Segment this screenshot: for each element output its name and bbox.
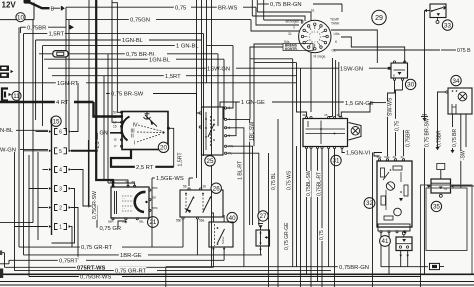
wire center bus 89	[88, 0, 90, 207]
svg-text:1,5RT: 1,5RT	[49, 32, 65, 38]
flasher relay U32 box	[377, 161, 412, 227]
svg-text:BR-WS: BR-WS	[218, 5, 237, 11]
svg-text:1SW-GN: 1SW-GN	[207, 66, 230, 72]
wire BR-WS into connector	[256, 7, 299, 25]
svg-text:15: 15	[113, 125, 117, 129]
wire center bus 117	[112, 3, 122, 113]
switch 26 inner contacts	[185, 194, 187, 213]
svg-text:31: 31	[122, 220, 126, 224]
wire connector feeds into 31 top	[332, 58, 334, 117]
svg-text:40: 40	[229, 215, 236, 222]
wire 075 B to right edge	[334, 49, 441, 51]
relay 40 bottom pins	[212, 248, 214, 250]
svg-text:15: 15	[324, 113, 328, 117]
flasher 32 inner circuit	[381, 168, 385, 177]
buzzer 41 inner	[396, 243, 412, 245]
wire relay30 right pin down	[402, 80, 404, 90]
wire 1 GN-GE to instrument	[220, 102, 240, 107]
wire 290 drop	[292, 59, 294, 267]
ignition switch left pins	[121, 111, 123, 113]
wire left stub y263	[0, 263, 9, 265]
svg-text:0,75BR-GN: 0,75BR-GN	[339, 265, 369, 271]
switch 31 top pins	[305, 117, 307, 119]
svg-text:B: B	[393, 74, 395, 78]
wire 1,5GE-WS	[152, 177, 155, 179]
svg-text:8: 8	[229, 106, 231, 110]
wire bus 233 drop	[227, 46, 233, 108]
wire fuse 4 output	[71, 170, 89, 207]
wire 31 bottom drops	[306, 149, 308, 275]
svg-text:2: 2	[59, 206, 62, 212]
wiper switch right pins	[225, 107, 227, 109]
wire fuse feeder 66	[65, 7, 67, 131]
svg-text:58b: 58b	[153, 186, 158, 190]
svg-text:5: 5	[59, 149, 62, 155]
wire connector top feeds	[251, 0, 253, 16]
svg-text:1,5GE-WS: 1,5GE-WS	[156, 176, 184, 182]
fuse 4	[49, 168, 51, 171]
svg-text:0,75 BR-GN: 0,75 BR-GN	[270, 2, 302, 8]
switch U33 box	[430, 4, 446, 18]
wire bottom drops	[211, 266, 213, 268]
wire 075RT-WS bus bold	[5, 266, 77, 268]
svg-text:IV: IV	[133, 123, 138, 129]
wire connector bottom drop M	[310, 53, 312, 112]
node 10 terminal circle	[16, 13, 25, 22]
svg-text:0,75BL-SW: 0,75BL-SW	[306, 170, 312, 196]
svg-text:I: I	[134, 141, 135, 147]
svg-text:0,75 BR: 0,75 BR	[452, 129, 458, 147]
switch 31 inner	[306, 128, 346, 130]
wire 0,75 BR-SW	[106, 93, 110, 95]
label 1,5RT vertical	[177, 152, 183, 168]
wire vertical bus i	[35, 40, 37, 120]
wire 0,75GR-RT bus	[19, 246, 80, 248]
wire 34 drop a	[452, 114, 454, 150]
wire 1,5RT lower	[52, 75, 164, 77]
svg-text:Schw: Schw	[221, 236, 225, 244]
relay 35 inner	[431, 182, 451, 184]
svg-text:35: 35	[433, 204, 440, 211]
wire 0,75GN	[66, 19, 129, 21]
wire connector left lower feeds	[250, 47, 293, 59]
wire horizontal from left edge to battery drop	[0, 19, 34, 21]
relay 30 pins	[389, 67, 391, 69]
svg-text:30: 30	[407, 82, 414, 89]
wire 0,75BR stub with arrow	[21, 26, 27, 28]
wire left stub y222	[0, 222, 33, 224]
wire 1,5GN-VI	[342, 149, 345, 153]
svg-text:58: 58	[153, 195, 157, 199]
wire wiper pin5 up	[227, 102, 236, 136]
wire center bus thick 96 to lamp switch	[96, 0, 113, 187]
wire relay 35 top	[440, 170, 442, 179]
svg-text:0,75 WS: 0,75 WS	[287, 170, 293, 190]
wire bus 218 drop	[217, 54, 219, 126]
wire battery to node 10	[33, 3, 35, 20]
svg-text:21: 21	[149, 219, 156, 226]
ignition switch wiper dashes	[138, 125, 163, 132]
svg-text:1: 1	[59, 225, 62, 231]
wire 34 drop c	[465, 114, 467, 147]
label 0,75 vertical small	[319, 228, 325, 241]
svg-text:OL: OL	[332, 49, 337, 53]
svg-text:1,5GN-VI: 1,5GN-VI	[346, 151, 371, 157]
fuse 6	[49, 130, 51, 133]
switch 33 bottom contact circle	[437, 18, 439, 21]
node 26 circle	[211, 183, 221, 193]
wire vertical bus d	[18, 27, 20, 247]
svg-text:1,5RT: 1,5RT	[178, 152, 184, 167]
wire vertical bus b	[8, 260, 10, 264]
wire 2,5 RT thick	[111, 150, 174, 167]
label 0,75 BR vertical	[452, 127, 458, 148]
wire 0,75RT bus	[9, 259, 58, 261]
turn signal switch U31 box	[303, 119, 348, 147]
fuse box main bus	[51, 118, 53, 236]
wire 0,75GR-WS bus	[29, 276, 79, 278]
wire vertical bus c	[14, 152, 16, 271]
wiper switch U25 box	[202, 107, 224, 155]
svg-text:W-GN: W-GN	[0, 147, 16, 153]
label 1BL-SW vertical	[249, 122, 255, 142]
switch 33 contacts	[432, 8, 444, 12]
wire flasher bottom drop b	[388, 233, 390, 274]
svg-text:26: 26	[213, 185, 220, 192]
flasher 32 bottom pin row	[378, 224, 410, 231]
label SW vertical	[461, 150, 467, 161]
relay 40 top stubs	[212, 213, 214, 222]
svg-text:0,75GR-SW: 0,75GR-SW	[92, 191, 98, 219]
wire from 33 down right side 0,75 BR-SW	[424, 11, 426, 275]
node 40 circle	[227, 212, 237, 222]
fog lamp switch U26 box	[180, 190, 223, 217]
svg-text:56a: 56a	[199, 219, 205, 223]
fuse 5	[49, 149, 51, 152]
svg-text:58R: 58R	[108, 220, 114, 224]
wire center bus 201	[201, 0, 203, 190]
light switch rotary dimmer arc thick	[135, 192, 146, 212]
node 33 circle	[442, 20, 452, 30]
ignition switch position arc	[122, 117, 130, 141]
wire 1GN-BL third	[44, 58, 148, 60]
light switch inner dashed rows	[122, 195, 133, 197]
switch 26 top pins	[188, 188, 190, 190]
svg-text:0,75 BR-SW: 0,75 BR-SW	[111, 92, 144, 98]
wire bottom bus 3	[0, 284, 474, 286]
fuse 1	[49, 225, 51, 228]
lamp 34 left pin	[446, 91, 448, 93]
scan smudge left edge	[0, 269, 3, 279]
relay 35 side arrows	[428, 184, 431, 187]
svg-text:1 BL-RT: 1 BL-RT	[238, 160, 244, 180]
instrument cluster connector ring	[299, 20, 331, 52]
svg-text:U6s: U6s	[334, 32, 340, 36]
wire 0,75 GR-RT bus 2	[15, 270, 115, 272]
wire drop to pin 30 of 21	[103, 76, 105, 180]
flasher 32 top pins	[378, 159, 380, 161]
wire bottom thick bus	[0, 273, 474, 275]
wire 88 vertical	[87, 140, 89, 206]
wire fuse 1 output	[71, 227, 72, 248]
svg-text:0,75BR: 0,75BR	[406, 129, 412, 147]
svg-text:0,75RT: 0,75RT	[59, 258, 78, 264]
svg-text:2,5 RT: 2,5 RT	[136, 165, 154, 171]
svg-text:1 GN-GE: 1 GN-GE	[241, 100, 265, 106]
wire bus 203 drop	[203, 34, 205, 156]
wire wiper FL down	[227, 153, 259, 225]
wire 1BR-GE bus	[24, 254, 120, 256]
svg-text:0,75: 0,75	[175, 5, 186, 11]
svg-text:4: 4	[59, 168, 62, 174]
node 32 circle	[364, 198, 375, 209]
svg-text:- -: - -	[122, 206, 125, 210]
ignition switch right contact	[162, 131, 164, 133]
wire vertical bus j	[42, 46, 44, 126]
node 35 circle	[431, 201, 441, 211]
wire connector K jog to relay 30	[341, 37, 405, 63]
label 0,75BR vertical 437	[437, 130, 443, 148]
wire relay30 KBL down SW-WS	[388, 80, 395, 156]
svg-text:29: 29	[375, 15, 383, 22]
svg-text:075 B: 075 B	[457, 48, 471, 54]
switch 31 lamp holder	[349, 123, 362, 141]
svg-text:58b: 58b	[153, 206, 158, 210]
relay 30 inner	[394, 69, 406, 71]
svg-text:0,75 GR-RT: 0,75 GR-RT	[81, 245, 113, 251]
wire 1SW-GN	[48, 67, 206, 69]
wire 0,75 GR to light switch	[88, 206, 97, 228]
node 29 circle	[372, 10, 386, 24]
label 0,75 BR-SW vertical	[424, 118, 430, 148]
light switch bottom pins	[112, 218, 114, 220]
node 31 circle	[331, 155, 341, 165]
wire 0,75GN into connector	[251, 20, 299, 31]
ground connector arrow right side	[423, 118, 427, 121]
svg-text:1BL-SW: 1BL-SW	[250, 122, 256, 141]
wire bottom bus 2	[0, 281, 474, 283]
svg-text:10: 10	[17, 14, 24, 21]
svg-text:KONTR.: KONTR.	[285, 47, 298, 51]
svg-text:49: 49	[393, 155, 397, 159]
ignition switch key arrow	[150, 120, 153, 125]
svg-text:B: B	[51, 6, 55, 12]
svg-text:1 GN-BL: 1 GN-BL	[176, 44, 199, 50]
svg-text:KBL: KBL	[385, 155, 391, 159]
wire 56b drop	[182, 219, 184, 247]
node 27 circle	[258, 211, 268, 221]
buzzer U41 box	[396, 237, 412, 251]
wire wiper pin7 to 1BL-SW	[227, 119, 250, 225]
svg-text:1GN-BL: 1GN-BL	[149, 57, 171, 63]
node 30 circle	[405, 79, 415, 89]
svg-text:58L: 58L	[139, 220, 144, 224]
svg-text:-SW: -SW	[461, 150, 467, 160]
svg-text:0,75 BL: 0,75 BL	[271, 173, 277, 190]
svg-text:31: 31	[333, 158, 340, 165]
wire 370 vertical	[372, 153, 374, 287]
relay U40 box	[209, 222, 233, 247]
sensor 27 inner	[260, 231, 262, 245]
wire 56a drop	[196, 219, 198, 255]
label 2,5 vertical	[95, 139, 101, 149]
svg-text:49a: 49a	[377, 155, 382, 159]
ignition switch U20 box	[122, 112, 168, 150]
wire flasher bottom drop a	[380, 233, 382, 267]
wire bus 224 drop	[223, 59, 225, 119]
svg-text:56: 56	[183, 185, 187, 189]
label 0,75 BL vertical	[271, 170, 277, 191]
ground connector symbol	[430, 263, 440, 269]
switch 26 bottom pins	[182, 217, 184, 219]
wire 0,75 BR-BL	[39, 53, 125, 55]
wire 4 RT thick	[0, 101, 55, 103]
switch 33 left arrow	[424, 9, 427, 12]
connector 11 bracket	[2, 89, 8, 101]
node 41 circle	[380, 236, 391, 247]
svg-text:II: II	[131, 134, 134, 140]
wire ignition switch output 1,5RT	[168, 128, 173, 167]
svg-text:61: 61	[311, 9, 315, 13]
svg-text:0,75BL-RT: 0,75BL-RT	[316, 172, 322, 196]
wire fuse input stubs	[15, 226, 49, 228]
svg-text:1GN-RT: 1GN-RT	[57, 81, 79, 87]
wire center bus 206	[206, 0, 208, 83]
wire vertical bus h	[37, 152, 39, 240]
wire 0,75 BR-GN header	[258, 3, 269, 5]
svg-text:3: 3	[293, 26, 295, 30]
wire center bus 196	[196, 0, 198, 178]
wire vertical bus a	[4, 253, 6, 268]
wire fuse feeder 69	[68, 20, 70, 151]
svg-text:30: 30	[113, 115, 117, 119]
wiper switch inner contacts	[205, 112, 207, 150]
svg-text:SW-WS: SW-WS	[388, 97, 394, 116]
svg-text:0,75 BR-SW: 0,75 BR-SW	[424, 118, 430, 147]
svg-text:0,75: 0,75	[319, 230, 325, 240]
svg-text:N-BL: N-BL	[0, 128, 14, 134]
connector pins	[314, 23, 317, 26]
wire 1GN-BL first	[36, 39, 121, 41]
label 0,75BL-RT vertical	[316, 171, 322, 197]
label 0,75BR vertical right of flasher	[405, 129, 411, 148]
label SW-WS vertical	[387, 97, 393, 117]
svg-text:P: P	[114, 145, 116, 149]
fuse 3	[49, 187, 51, 190]
svg-text:4 RT: 4 RT	[56, 100, 69, 106]
battery terminal blob	[24, 0, 31, 4]
wire 49 feed	[396, 90, 403, 156]
node 11 circle	[12, 91, 21, 100]
svg-text:3: 3	[59, 187, 62, 193]
wire sensor 27 bottom	[260, 246, 262, 255]
svg-text:15: 15	[53, 118, 60, 125]
svg-text:TANK: TANK	[331, 22, 340, 26]
svg-text:1,5RT: 1,5RT	[165, 74, 181, 80]
wire 31 feed of flasher	[403, 130, 405, 156]
sensor 27 top plug	[260, 226, 262, 231]
svg-text:M siege.: M siege.	[314, 55, 327, 59]
connector plug left edge	[0, 66, 9, 71]
svg-text:41: 41	[382, 238, 389, 245]
label GN at ignition feed	[98, 129, 106, 135]
node 25 circle	[205, 156, 215, 166]
wire wiper FR down	[227, 146, 253, 225]
wire battery B+ thick lead	[28, 2, 50, 9]
node 21 circle	[148, 217, 159, 228]
wire center bus 112	[112, 0, 122, 122]
relay 35 bottom circle	[439, 194, 442, 197]
wire 0,75 / BR-WS	[66, 6, 174, 8]
node 20 circle	[158, 142, 168, 152]
wire 1GN-RT	[0, 82, 56, 84]
wire drop to pin 56 of 21	[107, 54, 109, 183]
relay 30 bottom pins	[393, 78, 395, 80]
relay U30 box	[391, 63, 408, 78]
svg-text:1BR-GE: 1BR-GE	[120, 253, 142, 259]
svg-text:0,75: 0,75	[395, 121, 401, 131]
svg-text:33: 33	[444, 22, 451, 29]
svg-text:25: 25	[207, 158, 214, 165]
wire vertical bus f	[28, 155, 30, 277]
light switch U21 box	[111, 187, 149, 218]
light switch top pins	[112, 185, 114, 187]
wiper switch left pins	[199, 112, 201, 114]
wire 296 drop	[297, 63, 307, 117]
label 0,75 GR-GE vertical	[284, 222, 290, 251]
svg-text:1,5 GN-GE: 1,5 GN-GE	[345, 101, 374, 107]
lamp 34 symbol	[458, 92, 467, 101]
wire 1 GN-BL second	[43, 45, 176, 47]
wire 0,75BR-GN bus	[166, 266, 338, 268]
relay U35 box	[431, 179, 451, 193]
wire center bus 211	[211, 0, 213, 267]
wire 296 lower drop	[296, 146, 298, 267]
svg-text:1SW-GN: 1SW-GN	[340, 66, 363, 72]
buzzer 41 top circle	[402, 232, 405, 235]
svg-text:0,75GN: 0,75GN	[130, 18, 150, 24]
wire 34 drop b	[460, 114, 462, 188]
svg-text:56b: 56b	[176, 219, 182, 223]
wire 1,5RT upper	[24, 33, 49, 35]
svg-text:1GN-BL: 1GN-BL	[122, 38, 144, 44]
switch 31 bottom pins	[305, 146, 307, 148]
wire wiper pin6 to 1BL-RT	[227, 128, 244, 267]
label 0,75 vertical	[394, 119, 400, 132]
svg-text:6: 6	[59, 130, 62, 136]
svg-text:0,75GR-WS: 0,75GR-WS	[80, 275, 111, 281]
wire fuse 3 output	[52, 189, 75, 244]
light switch right pins	[149, 189, 151, 191]
ignition switch interlock anchor symbol	[146, 112, 148, 120]
wire connector right wire 30	[331, 30, 377, 63]
fuse 2	[49, 206, 51, 209]
svg-text:0,75BR: 0,75BR	[27, 25, 46, 31]
light switch inner left bars	[114, 191, 116, 214]
label 0,75BL-SW vertical	[306, 170, 312, 197]
BREMS KONTR label box	[283, 44, 313, 51]
large unit inner rect	[426, 188, 467, 251]
sensor U27 box	[256, 230, 270, 246]
svg-text:27: 27	[260, 213, 267, 220]
wire fuse 2 output	[71, 208, 78, 261]
lamp 34 inner details	[451, 104, 453, 114]
svg-text:0,75 GR-GE: 0,75 GR-GE	[284, 222, 290, 250]
fusible link symbol on 0,75 BR-BL wire	[53, 51, 68, 57]
wire relay 35 right	[454, 185, 474, 187]
wire fuse 6 output	[71, 83, 78, 132]
wire 300 drop	[300, 68, 302, 287]
